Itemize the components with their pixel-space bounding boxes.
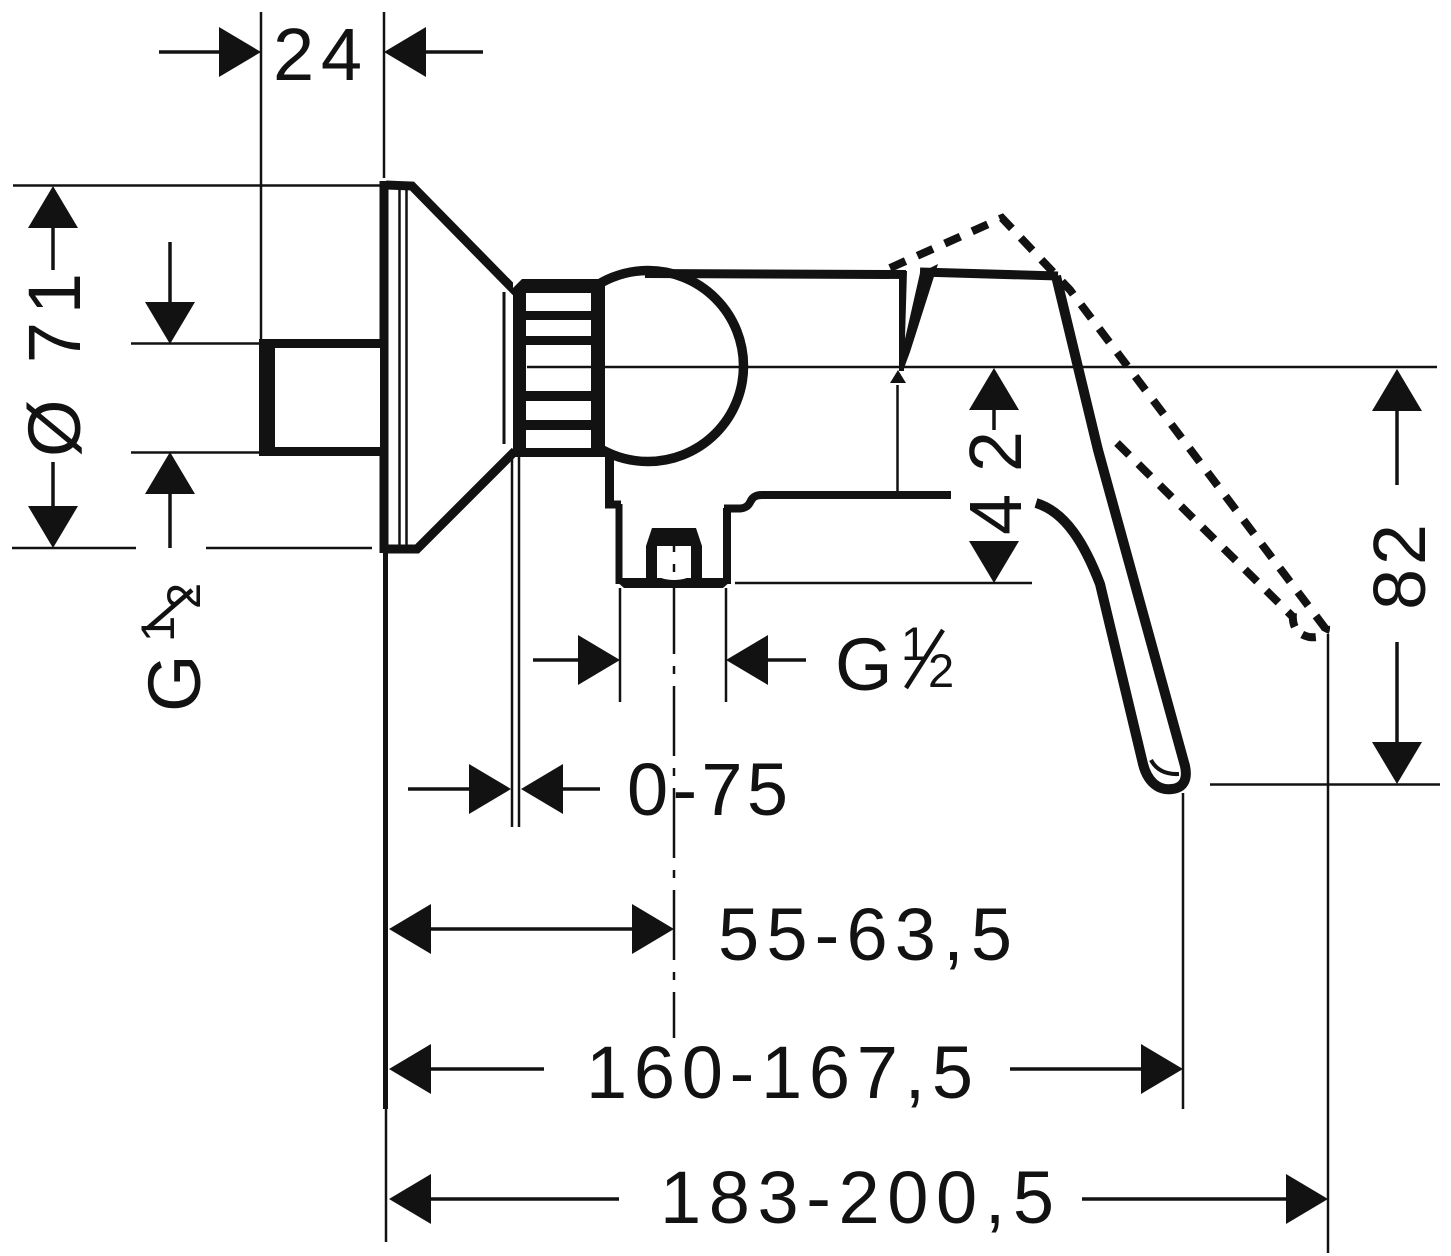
dim 183-200.5 left arrow	[389, 1174, 619, 1224]
centerline	[527, 366, 1437, 369]
dim 0-75 left arrow	[408, 764, 511, 814]
body bottom edge right of outlet with step	[724, 495, 951, 509]
wall pipe nipple G1/2	[259, 339, 387, 456]
dim 55-63.5 right arrow	[632, 904, 674, 954]
dim G12 bottom left arrow	[533, 635, 620, 685]
flange face thin lines	[400, 189, 407, 545]
outlet right extension line	[725, 588, 728, 702]
dim 82 top arrow	[1372, 369, 1422, 485]
dim 42 top arrow	[969, 368, 1019, 430]
ball joint sphere	[553, 271, 744, 462]
body left wall	[605, 452, 614, 503]
svg-text:0-75: 0-75	[627, 748, 788, 831]
outlet cup bottom	[616, 578, 731, 588]
dim G12 bottom right arrow	[726, 635, 806, 685]
dim O71 top extension	[13, 184, 381, 187]
handle lever outline with tip cap	[1036, 276, 1186, 789]
dim G12 left leader and arrows	[145, 242, 195, 548]
dim O71 top arrow	[28, 186, 78, 270]
wall flange escutcheon outline	[380, 181, 516, 553]
handle lever tip inner line	[1151, 760, 1179, 774]
body internal joint line	[896, 385, 899, 492]
cone right end face line	[503, 292, 506, 444]
wall face line	[383, 549, 389, 1242]
dim 82 bottom arrow	[1372, 642, 1422, 784]
dim 24 right extension line	[383, 12, 386, 178]
dim 160-167.5 right arrow	[1010, 1044, 1183, 1094]
0-75 double extension lines	[512, 455, 519, 827]
dim 42 bottom extension	[735, 582, 1032, 585]
dashed handle tip extension line	[1327, 634, 1330, 1253]
pipe bottom extension segment	[131, 451, 262, 454]
outlet cup right wall	[723, 508, 731, 584]
outlet left extension line	[619, 588, 622, 702]
outlet hex nut	[646, 528, 702, 580]
handle base wedge	[890, 264, 938, 383]
dashed lever lower edge	[1117, 443, 1292, 616]
valve body top edge	[645, 274, 906, 275]
solid handle tip extension line	[1182, 793, 1185, 1109]
dim 82 bottom extension	[1210, 783, 1440, 786]
dim 24 left extension line	[260, 12, 263, 339]
dim text G12 bottom	[835, 617, 954, 706]
body bottom edge left of outlet	[605, 501, 621, 509]
dim 55-63.5 left arrow	[389, 904, 635, 954]
knurled connection nut	[513, 279, 605, 457]
dim text G12 left rotated	[131, 583, 216, 712]
dim 24 left arrow	[159, 27, 261, 77]
svg-text:183-200,5: 183-200,5	[660, 1156, 1054, 1239]
dim 42 bottom arrow	[969, 541, 1019, 583]
outlet cup left wall	[616, 504, 623, 584]
svg-text:160-167,5: 160-167,5	[586, 1031, 973, 1114]
handle top edge	[920, 272, 1058, 276]
svg-text:2: 2	[928, 644, 954, 697]
pipe top extension segment	[131, 342, 262, 345]
svg-text:G: G	[133, 654, 216, 712]
dim O71 bottom extension	[12, 547, 372, 550]
dashed handle raised outline peak	[890, 218, 1325, 628]
svg-text:2: 2	[157, 583, 210, 609]
dim 183-200.5 right arrow	[1082, 1174, 1328, 1224]
outlet centerline chain	[673, 533, 676, 1038]
dim 160-167.5 left arrow	[389, 1044, 544, 1094]
dim 24 right arrow	[384, 27, 483, 77]
svg-text:G: G	[835, 623, 893, 706]
dim O71 bottom arrow	[28, 462, 78, 548]
dim 0-75 right arrow	[521, 764, 600, 814]
dashed lever tip cap	[1293, 613, 1326, 637]
